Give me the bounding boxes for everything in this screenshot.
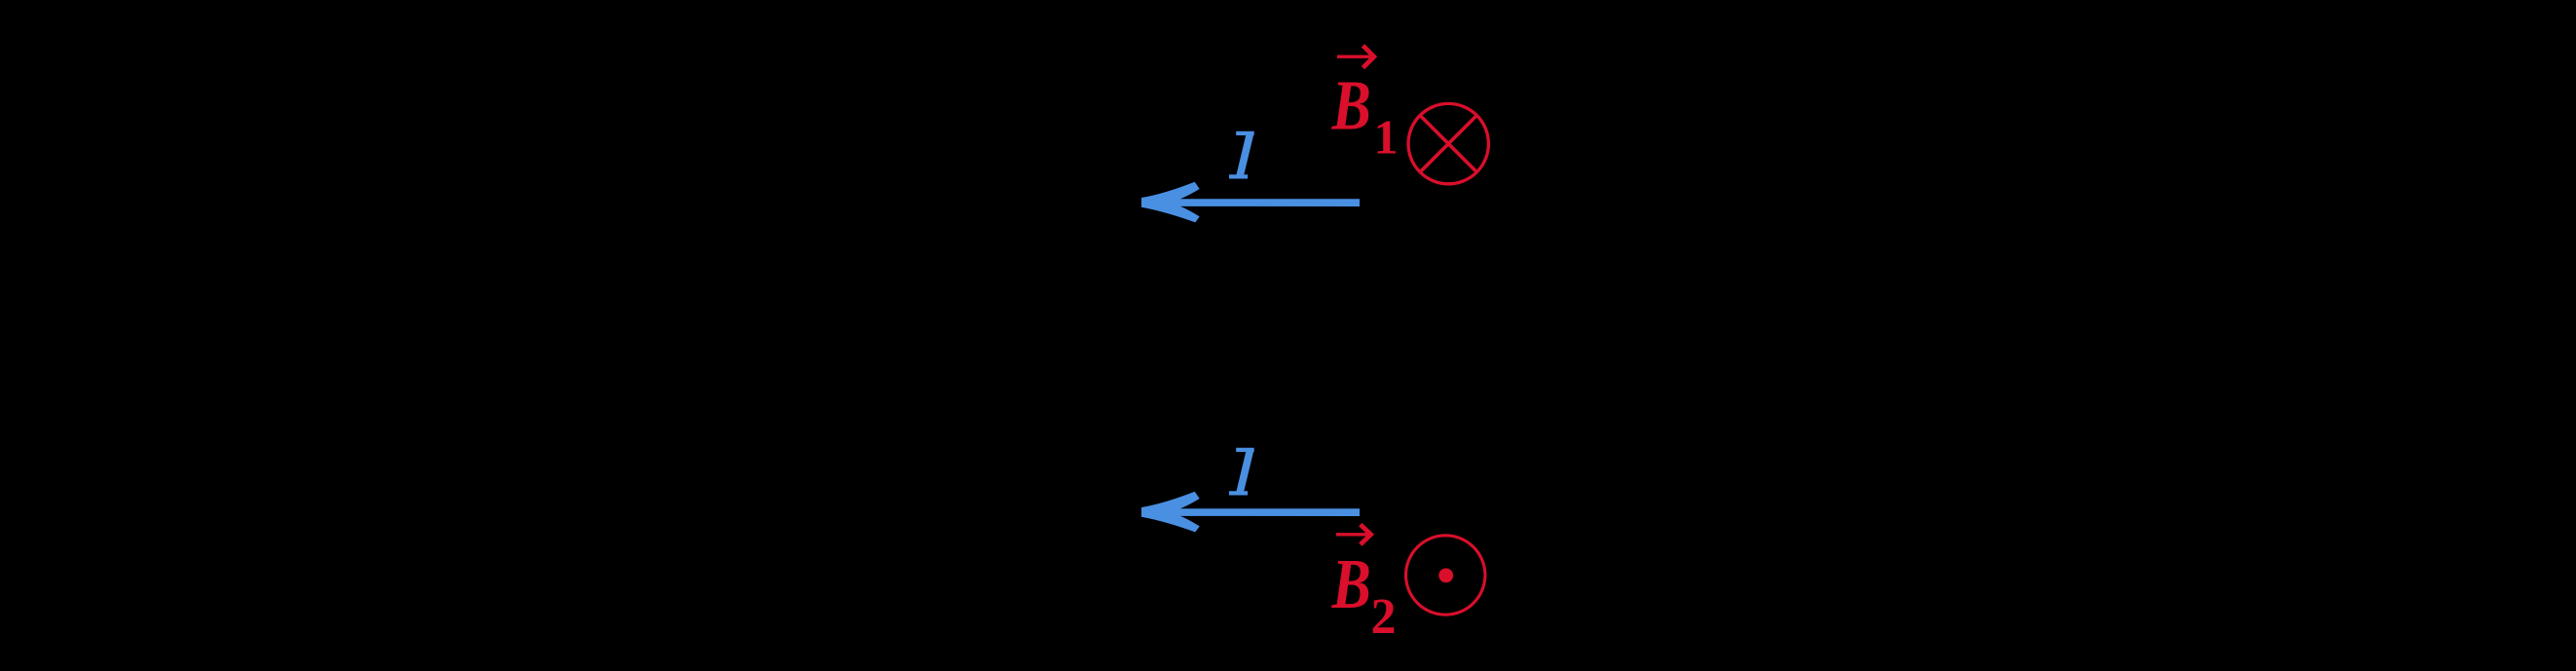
vector arrow over B2 xyxy=(1336,525,1371,545)
label I (current, wire 1) xyxy=(1229,131,1254,179)
svg-text:1: 1 xyxy=(1374,110,1399,165)
field symbol B1 into page (circle with X) xyxy=(1408,103,1488,183)
wire 2 current arrow (bottom, pointing left) xyxy=(1141,492,1360,533)
field symbol B2 out of page (circle with dot) xyxy=(1406,536,1485,615)
svg-text:B: B xyxy=(1331,65,1371,145)
label I (current, wire 2) xyxy=(1229,448,1254,496)
vector arrow over B1 xyxy=(1337,46,1374,68)
svg-text:B: B xyxy=(1331,543,1371,623)
wire 1 current arrow (top, pointing left) xyxy=(1141,182,1360,223)
svg-text:2: 2 xyxy=(1371,589,1397,645)
